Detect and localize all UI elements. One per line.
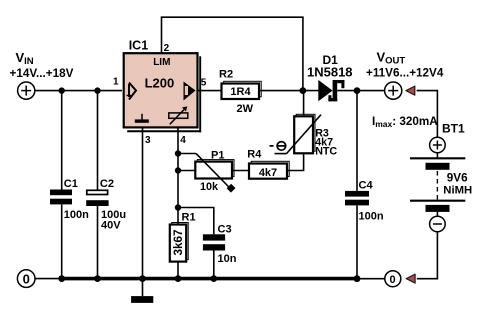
svg-text:100n: 100n (64, 209, 89, 221)
svg-text:R2: R2 (219, 69, 233, 81)
resistor R1 (170, 225, 186, 262)
potentiometer P1 highlight (197, 160, 234, 177)
capacitor C4 (345, 191, 369, 197)
svg-text:C4: C4 (359, 180, 374, 192)
symbol: -theta temperature coefficient (270, 145, 274, 147)
svg-text:40V: 40V (101, 219, 121, 231)
potentiometer P1 (195, 162, 232, 179)
svg-text:NiMH: NiMH (443, 184, 472, 196)
wire: VIN to IC pin 1 (35, 90, 122, 92)
wire: D1 cathode to VOUT terminal (337, 90, 384, 92)
svg-text:C3: C3 (218, 224, 232, 236)
svg-text:2: 2 (164, 43, 170, 54)
svg-text:C1: C1 (64, 178, 78, 190)
wire: IC pin 5 to R2 (198, 90, 222, 92)
wire: battery minus down to 0 arrow (417, 232, 438, 279)
capacitor C1 (50, 190, 72, 196)
svg-text:IC1: IC1 (129, 39, 149, 53)
resistor R4 (249, 164, 287, 179)
wire: R1 bottom to rail (177, 262, 179, 279)
wire: P1 left terminal (178, 170, 195, 172)
svg-text:R4: R4 (247, 149, 262, 161)
ground (131, 296, 153, 303)
wire: P1 wiper horizontal (178, 153, 196, 155)
arrow: output polarity marker top (406, 86, 415, 95)
node: junctions on pin 4 line (175, 150, 181, 156)
battery BT1 minus terminal (430, 216, 446, 232)
svg-text:R1: R1 (182, 212, 196, 224)
wire: C4 branch (356, 91, 358, 191)
svg-text:5: 5 (201, 78, 207, 89)
svg-text:4: 4 (180, 135, 186, 146)
op-amp U1 : IC1 L200 regulator body (124, 53, 198, 127)
terminal: 0 right (385, 271, 401, 287)
resistor R2 highlight (224, 81, 262, 97)
wire: ground rail thick (61, 277, 358, 281)
diode D1 1N5818 (318, 80, 332, 101)
svg-text:BT1: BT1 (442, 121, 465, 135)
wire: cell 2 to minus terminal (436, 212, 438, 216)
wire: VOUT arrow to battery branch corner (417, 91, 438, 138)
wire: C1 branch (61, 91, 63, 190)
op-amp U1 : IC1 L200 regulator box shadow (199, 56, 201, 132)
NTC diagonal (287, 115, 322, 154)
svg-text:9V6: 9V6 (447, 171, 468, 184)
node: junction at D1 cathode / C4 (354, 87, 361, 94)
svg-text:4k7: 4k7 (259, 167, 277, 179)
svg-text:1N5818: 1N5818 (307, 65, 353, 80)
svg-text:1: 1 (113, 77, 119, 88)
symbol: input arrow outline inside IC (127, 83, 137, 100)
resistor R1 highlight (172, 223, 188, 260)
node: junctions on ground rail (58, 275, 65, 282)
svg-text:P1: P1 (211, 150, 224, 162)
svg-text:100n: 100n (359, 210, 384, 222)
arrow: output polarity marker bottom (406, 274, 415, 283)
svg-text:10k: 10k (200, 181, 219, 193)
node: junction at D1 anode / LIM (300, 87, 307, 94)
node: junction dots top wire (59, 87, 65, 93)
svg-text:NTC: NTC (315, 146, 337, 158)
svg-text:C2: C2 (100, 178, 114, 190)
svg-text:LIM: LIM (153, 57, 170, 68)
resistor R3 NTC highlight (296, 114, 315, 151)
wire: R2 to D1 anode (259, 90, 318, 92)
wire: 0 terminal left to rail (35, 278, 62, 280)
svg-text:L200: L200 (145, 75, 175, 90)
battery BT1 dashed link (436, 171, 438, 200)
battery BT1 cell 2 (410, 200, 465, 202)
terminal: VOUT plus (385, 82, 402, 99)
battery BT1 cell 1 (410, 157, 465, 159)
svg-text:3k67: 3k67 (172, 229, 185, 255)
svg-text:3: 3 (145, 135, 151, 146)
svg-text:0: 0 (23, 271, 30, 286)
wiper arrow P1 (196, 153, 232, 190)
wire: rail to 0 terminal right (357, 278, 385, 280)
wire: C2 branch (97, 91, 99, 190)
svg-text:2W: 2W (237, 103, 254, 115)
wire: pin 2 up over to D1 junction (162, 17, 303, 90)
svg-text:1R4: 1R4 (230, 86, 251, 98)
wire: P1 right to R4 (232, 170, 249, 172)
symbol: current limit resistor inside IC (169, 113, 188, 118)
svg-text:+14V...+18V: +14V...+18V (10, 67, 74, 80)
svg-text:0: 0 (390, 274, 396, 286)
wire: IC pin 3 down to ground (142, 128, 144, 297)
resistor R3 NTC body (294, 116, 313, 153)
svg-text:10n: 10n (218, 253, 237, 265)
capacitor C3 (203, 234, 225, 240)
resistor R2 (222, 84, 260, 100)
terminal: 0 left (17, 270, 35, 288)
wire: junction to R3 top (303, 91, 305, 117)
wire: R4 right up to R3 bottom (287, 153, 304, 170)
wire: IC pin 4 down to R1 (177, 128, 179, 225)
terminal: VIN plus (18, 82, 35, 99)
svg-text:+11V6...+12V4: +11V6...+12V4 (366, 67, 444, 80)
resistor R4 highlight (251, 161, 289, 176)
symbol: output arrow filled inside IC (184, 82, 196, 101)
symbol: ground reference inside IC (135, 119, 149, 122)
wire: C3 branch (178, 208, 214, 235)
battery BT1 plus terminal (430, 137, 446, 153)
wire: plus terminal to cell (436, 153, 438, 159)
capacitor C2 electrolytic (87, 190, 108, 194)
